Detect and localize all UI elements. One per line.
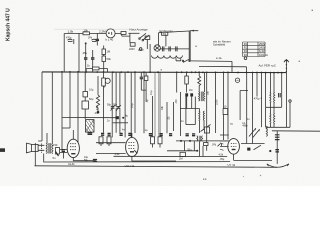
svg-text:Auf. FER +µC: Auf. FER +µC — [259, 63, 276, 67]
svg-text:50p: 50p — [107, 104, 112, 107]
svg-text:UY 41: UY 41 — [228, 163, 236, 167]
svg-text:0,3M: 0,3M — [216, 100, 219, 105]
svg-text:1,5k: 1,5k — [68, 30, 74, 34]
svg-text:110V: 110V — [138, 49, 144, 52]
svg-text:a 1a: a 1a — [216, 56, 222, 60]
svg-text:50p: 50p — [113, 104, 118, 107]
svg-text:Entbrumm.: Entbrumm. — [160, 29, 174, 33]
svg-text:50µ: 50µ — [89, 97, 94, 101]
svg-text:4µ: 4µ — [125, 114, 128, 118]
svg-text:4,5k: 4,5k — [219, 153, 224, 156]
svg-text:Schaltbild: Schaltbild — [213, 43, 226, 47]
svg-text:0,1µ: 0,1µ — [150, 90, 153, 95]
svg-text:UL41: UL41 — [68, 162, 75, 166]
svg-text:b L 40: b L 40 — [106, 37, 114, 41]
svg-text:50k: 50k — [107, 57, 112, 61]
svg-text:50µ: 50µ — [84, 159, 89, 162]
svg-text:,05µ: ,05µ — [82, 51, 88, 55]
svg-text:,05µ: ,05µ — [220, 158, 225, 161]
svg-text:a 4.: a 4. — [203, 178, 207, 181]
svg-text:,05µ: ,05µ — [187, 147, 193, 151]
svg-text:2M: 2M — [179, 157, 183, 161]
svg-text:JPd: JPd — [88, 37, 93, 40]
svg-text:Kapsch 447 U: Kapsch 447 U — [6, 8, 12, 41]
svg-text:JPd: JPd — [175, 99, 178, 104]
svg-text:UCH 41: UCH 41 — [125, 164, 135, 168]
svg-text:1M: 1M — [107, 50, 111, 54]
svg-text:470p: 470p — [254, 96, 260, 100]
svg-text:2,2M: 2,2M — [99, 30, 106, 34]
svg-text:4,5k: 4,5k — [115, 152, 121, 156]
svg-text:100mA: 100mA — [259, 53, 268, 57]
svg-text:1M: 1M — [189, 89, 192, 92]
svg-text:R4: R4 — [244, 53, 248, 57]
svg-text:Netz Anzeige: Netz Anzeige — [130, 27, 149, 31]
svg-text:0,1µ: 0,1µ — [131, 103, 134, 108]
svg-text:150: 150 — [53, 143, 58, 147]
svg-text:10µ: 10µ — [89, 88, 94, 92]
svg-text:220V: 220V — [129, 48, 135, 51]
svg-text:JPd: JPd — [212, 143, 217, 146]
svg-text:470p: 470p — [66, 37, 72, 40]
svg-text:498p: 498p — [242, 125, 248, 128]
svg-text:10k: 10k — [84, 28, 89, 32]
